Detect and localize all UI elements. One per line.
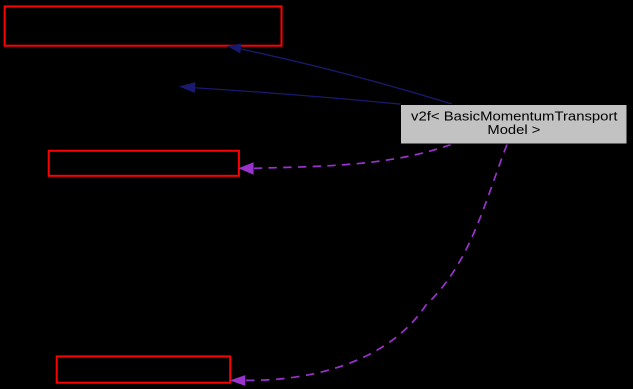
class box base2 (black border, invisible on black) bbox=[21, 74, 179, 101]
current node: v2f< BasicMomentumTransportModel > bbox=[401, 105, 628, 145]
inheritance edge to invisible box bbox=[179, 82, 401, 104]
svg-text:v2f< BasicMomentumTransport: v2f< BasicMomentumTransport bbox=[411, 108, 618, 123]
class box bottom (red, truncated node) bbox=[57, 356, 231, 382]
svg-text:Model >: Model > bbox=[487, 122, 540, 137]
inheritance edge to top red box bbox=[227, 44, 452, 104]
usage (dashed) edge to middle red box bbox=[238, 145, 451, 175]
class box middle (red, truncated node) bbox=[49, 151, 239, 176]
class box top (red, truncated node) bbox=[5, 6, 282, 45]
usage (dashed) edge to bottom red box bbox=[230, 145, 507, 386]
